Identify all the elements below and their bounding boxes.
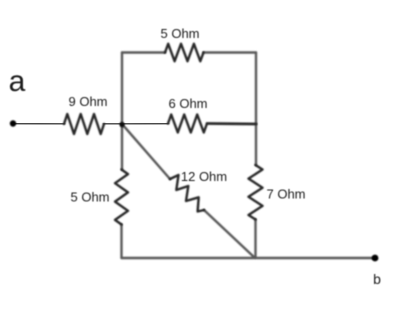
wire terminal a to R1	[13, 122, 64, 125]
wire R5 to bottom left corner	[120, 225, 122, 259]
wire R4 to node E	[254, 220, 256, 259]
terminal a dot	[10, 120, 16, 126]
wire node C up	[121, 53, 123, 125]
resistor R2 6 Ohm	[168, 115, 207, 133]
resistor R6 12 Ohm diagonal	[170, 175, 204, 212]
wire node D down to R4	[255, 124, 257, 165]
wire R3 to top right corner	[204, 51, 257, 53]
resistor R3 5 Ohm top	[165, 44, 204, 61]
svg-text:6 Ohm: 6 Ohm	[168, 96, 207, 111]
wire node C to R2	[122, 122, 168, 125]
wire bottom rail	[122, 257, 376, 259]
wire R1 to node C	[104, 123, 122, 125]
svg-text:9 Ohm: 9 Ohm	[68, 94, 107, 109]
wire node C diagonal to R6	[122, 124, 170, 179]
svg-text:5 Ohm: 5 Ohm	[70, 190, 109, 205]
resistor R1 9 Ohm	[64, 114, 104, 134]
wire R6 diagonal to node E	[204, 210, 255, 258]
wire top left corner to R3	[122, 51, 165, 53]
svg-text:b: b	[373, 271, 381, 287]
svg-text:12 Ohm: 12 Ohm	[181, 169, 227, 184]
resistor R5 5 Ohm left	[115, 170, 128, 225]
svg-text:7 Ohm: 7 Ohm	[266, 187, 305, 202]
terminal b dot	[372, 255, 379, 262]
junction dot node C	[119, 122, 124, 127]
svg-text:5 Ohm: 5 Ohm	[160, 26, 199, 41]
resistor R4 7 Ohm	[249, 165, 263, 220]
wire R2 to node D	[207, 122, 256, 125]
wire node C down to R5	[121, 124, 123, 170]
wire top right corner down to node D	[255, 53, 257, 125]
svg-text:a: a	[9, 65, 26, 98]
